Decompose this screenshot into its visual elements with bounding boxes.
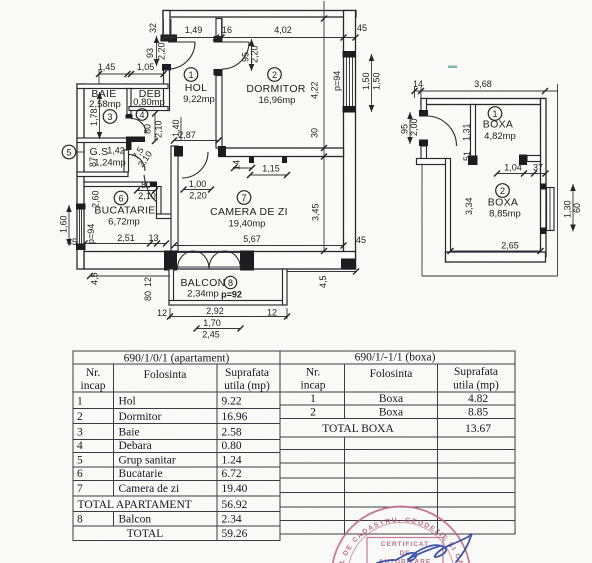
pier: camera top wall stub a bbox=[249, 157, 254, 164]
wall: corridor east / camera west bbox=[171, 146, 178, 251]
dim: boxa2 window 1,30 / 60 bbox=[563, 184, 583, 232]
wall: boxa1 bottom left piece bbox=[417, 159, 449, 165]
boundary line: bottom bbox=[422, 275, 558, 277]
jamb: camera door left bbox=[174, 146, 183, 157]
table text right bbox=[301, 352, 499, 436]
signature (blue pen) bbox=[377, 534, 472, 563]
door arc: deb bbox=[131, 119, 146, 134]
wall: hol west lower / deb east bbox=[164, 70, 170, 111]
wall: boxa1 bottom right piece bbox=[527, 156, 541, 162]
room 4: DEB bbox=[133, 88, 165, 120]
wall: baie+deb top bbox=[77, 84, 168, 89]
dim line: top chain 32/1,49/16/4,02/45 bbox=[148, 19, 367, 42]
window: boxa2 right bbox=[540, 184, 554, 235]
jamb: entrance bottom bbox=[162, 64, 171, 71]
door arc: gs bbox=[129, 154, 145, 171]
dim: baie 1,78 bbox=[89, 92, 102, 139]
room 2: DORMITOR bbox=[246, 68, 305, 106]
jamb: boxa door bottom bbox=[419, 140, 428, 147]
window: dormitor (right wall) bbox=[343, 51, 356, 113]
jamb: gs top-right bbox=[126, 140, 132, 150]
dim: 14 + 1,15 camera piers bbox=[231, 160, 290, 178]
dim line: deb door vertical bbox=[154, 114, 156, 142]
door arc: boxa entry bbox=[427, 116, 457, 146]
dim: camera 5,67 / 45 bbox=[171, 234, 366, 249]
wall: left exterior (baie/gs/bucatarie) bbox=[77, 84, 84, 269]
boundary line: right bbox=[557, 84, 559, 276]
dim: bucatarie 2,51 / 13 bbox=[82, 233, 170, 247]
wall: boxa left upper bbox=[421, 99, 427, 112]
wall: balcony left bbox=[169, 269, 174, 305]
dim chain: 4,22 / 30 / 3,45 bbox=[310, 1, 328, 254]
stamp outer circle bbox=[332, 507, 471, 563]
room 3: BAIE bbox=[89, 88, 121, 123]
wall: boxa2 bottom bbox=[446, 252, 546, 262]
stamp rectangle bbox=[367, 538, 443, 563]
door arc: entrance (into hol) bbox=[168, 42, 195, 69]
wall: bucatarie top bbox=[84, 182, 152, 187]
table grid left bbox=[73, 351, 280, 541]
table text left bbox=[77, 353, 270, 541]
stamp inner circle bbox=[348, 523, 455, 563]
jamb: dormitor door bottom bbox=[214, 69, 223, 76]
wall: hol west upper segment bbox=[163, 11, 170, 39]
door arcs: balcony double door bbox=[178, 251, 210, 269]
dim line: 1,45 / 1,05 bbox=[96, 62, 167, 84]
room 5: G.S bbox=[62, 145, 126, 168]
wall: boxa right bbox=[541, 99, 547, 257]
window: bucatarie (left wall p=94) bbox=[76, 204, 86, 251]
jamb: entrance top bbox=[161, 35, 178, 42]
dim: bucatarie window 1,60 / 45 bbox=[59, 205, 78, 247]
door arc: camera de zi bbox=[182, 152, 208, 178]
door arc: bucatarie bbox=[151, 182, 158, 188]
jamb: dormitor door top bbox=[214, 36, 223, 43]
stray teal mark bbox=[448, 66, 457, 69]
wall: balcony right bbox=[283, 269, 288, 305]
dim: boxa top 14 / 3,68 bbox=[412, 79, 558, 98]
dim: bucatarie door 80 / 2,10 bbox=[134, 180, 158, 201]
wall: balcony bottom bbox=[169, 301, 287, 306]
wall: bucatarie se step bbox=[157, 214, 172, 219]
dim: left bottom 4,5 + extension bbox=[90, 275, 170, 277]
wall: gs bottom bbox=[77, 172, 128, 177]
dim: balcony bottom 12/2,92/12 + 1,70 + 2,45 bbox=[157, 306, 290, 340]
jamb: camera door right bbox=[218, 146, 226, 157]
dim: right 4,5 + extension bbox=[287, 271, 356, 273]
wall: dormitor/camera divider + camera top bbox=[219, 148, 344, 157]
dim: corridor 2,87 bbox=[171, 130, 222, 144]
room 1: HOL bbox=[183, 68, 215, 105]
door arc: dormitor bbox=[222, 42, 249, 69]
dim: boxa door 95 / 2,00 bbox=[400, 112, 420, 144]
wall: boxa1/corridor divider bbox=[471, 105, 476, 159]
wall: baie bottom bbox=[77, 138, 131, 143]
jamb: boxa door top bbox=[419, 110, 428, 117]
wall: bucatarie east upper bbox=[157, 187, 162, 215]
jamb: boxa1 bottom right pier bbox=[519, 155, 527, 166]
dim: entrance door 93/2,20 bbox=[145, 36, 167, 66]
room boxa 1 bbox=[483, 107, 516, 142]
room 7: CAMERA DE ZI bbox=[210, 191, 288, 230]
wall: boxa top bbox=[421, 99, 545, 105]
room 6: BUCATARIE bbox=[94, 191, 155, 227]
dim: 1,40 bbox=[171, 117, 181, 140]
wall: boxa2 left bbox=[446, 159, 451, 263]
pier: camera top wall stub b bbox=[282, 157, 287, 164]
dim: boxa2 2,65 bbox=[448, 241, 544, 255]
wall: dormitor west lower bbox=[216, 76, 222, 149]
dim: camera door 1,00 / 2,20 bbox=[181, 179, 215, 201]
balcony door opening bbox=[164, 251, 254, 271]
wall: deb bottom bbox=[129, 107, 168, 111]
wall: dormitor west upper bbox=[216, 19, 222, 38]
room boxa 2 bbox=[488, 184, 521, 220]
jamb: baie door block bbox=[126, 137, 145, 143]
boundary line: left bbox=[421, 161, 423, 276]
wall: gs east bbox=[124, 150, 129, 172]
room 8: BALCON bbox=[181, 276, 242, 299]
dim: dormitor door 95/2,20 bbox=[241, 39, 260, 71]
wall: boxa left lower stub bbox=[421, 146, 427, 161]
table grid right bbox=[280, 351, 515, 534]
wall: bottom exterior bbox=[84, 252, 356, 270]
dim: 1,04 / 37 bbox=[494, 163, 549, 177]
wall: baie|deb divider bbox=[127, 89, 131, 115]
scan noise overlay bbox=[0, 0, 1, 1]
jamb: bottom-right corner block bbox=[341, 259, 356, 270]
jamb: divider bottom bbox=[468, 156, 478, 166]
wall: top exterior bbox=[163, 11, 356, 18]
wall: right exterior bbox=[344, 11, 356, 270]
dim: dormitor window 1,50 1,50 bbox=[361, 54, 382, 112]
